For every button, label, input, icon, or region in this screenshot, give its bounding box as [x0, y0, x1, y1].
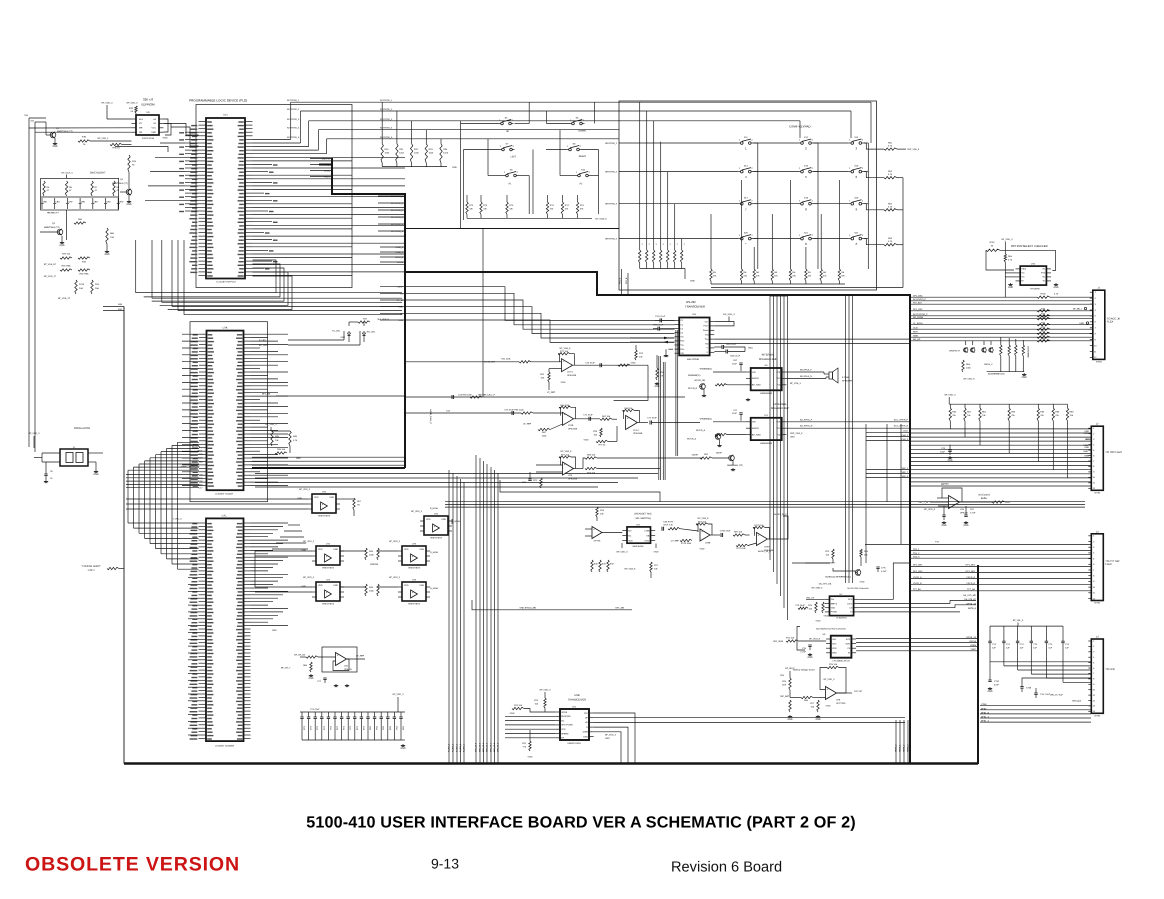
svg-text:R?? 10k: R?? 10k	[561, 454, 570, 457]
svg-text:OP?35: OP?35	[594, 540, 601, 543]
svg-text:UM_PIO: UM_PIO	[322, 158, 331, 161]
svg-text:LED: LED	[94, 201, 99, 204]
svg-text:R_BO_0: R_BO_0	[448, 743, 451, 752]
svg-text:GBIB_1: GBIB_1	[899, 744, 902, 752]
svg-text:BF_VDD_3: BF_VDD_3	[393, 693, 405, 696]
svg-text:VSCR_B: VSCR_B	[966, 582, 975, 585]
svg-text:R1i: R1i	[705, 334, 709, 337]
svg-text:CBF_VDb_8: CBF_VDb_8	[907, 148, 920, 151]
svg-text:GND: GND	[941, 524, 946, 527]
svg-text:LC4256V TQ100A: LC4256V TQ100A	[215, 493, 233, 496]
svg-text:OPA4348: OPA4348	[567, 374, 577, 377]
svg-text:GND: GND	[987, 690, 992, 693]
svg-text:OSCILLATOR: OSCILLATOR	[74, 427, 90, 430]
svg-text:BF_VDD_3: BF_VDD_3	[102, 102, 114, 105]
svg-text:BF_VDD_3: BF_VDD_3	[411, 510, 423, 513]
svg-text:GND: GND	[301, 549, 306, 552]
svg-text:GND: GND	[419, 584, 424, 587]
svg-text:BF_VDA_4: BF_VDA_4	[62, 172, 74, 175]
svg-text:LC4128V TQFP144: LC4128V TQFP144	[216, 281, 236, 284]
svg-text:NO_BS: NO_BS	[913, 338, 921, 341]
svg-text:GND: GND	[631, 362, 636, 365]
svg-text:GND: GND	[528, 756, 533, 759]
svg-text:3HbrVOB?A: 3HbrVOB?A	[322, 603, 334, 606]
svg-text:-: -	[326, 559, 327, 562]
svg-text:PGND: PGND	[831, 611, 838, 614]
svg-text:N PAJ: N PAJ	[1094, 714, 1100, 717]
svg-text:BIO1: BIO1	[198, 450, 204, 453]
svg-text:TRANSCEIVER: TRANSCEIVER	[568, 699, 587, 702]
svg-text:-: -	[758, 542, 759, 545]
svg-text:47uF 4.7k: 47uF 4.7k	[663, 524, 673, 527]
svg-text:RX_LED: RX_LED	[367, 331, 376, 334]
svg-text:0.7uF: 0.7uF	[801, 650, 807, 653]
svg-text:GND: GND	[126, 203, 131, 206]
svg-text:USB: USB	[574, 694, 580, 697]
svg-text:CL_BR1A: CL_BR1A	[913, 322, 923, 325]
svg-text:ACC/GPIO_P: ACC/GPIO_P	[913, 298, 927, 301]
svg-text:BF_VDD_3: BF_VDD_3	[605, 734, 617, 737]
svg-text:CCB: CCB	[913, 327, 918, 330]
svg-text:B6B: B6B	[198, 460, 203, 463]
svg-text:MIC_CL1: MIC_CL1	[479, 742, 482, 752]
svg-text:-: -	[564, 472, 565, 475]
svg-text:GND: GND	[419, 548, 424, 551]
svg-text:VDD: VDD	[426, 518, 431, 521]
svg-text:C?b 10uF: C?b 10uF	[795, 604, 805, 607]
svg-text:GMB: GMB	[913, 335, 918, 338]
svg-text:R11 100k: R11 100k	[501, 358, 511, 361]
svg-text:-: -	[701, 538, 702, 541]
svg-text:RGB: RGB	[913, 331, 918, 334]
svg-text:WWBBM(11): WWBBM(11)	[700, 368, 713, 371]
svg-text:V-: V-	[706, 351, 708, 354]
svg-text:B1B: B1B	[198, 453, 203, 456]
svg-text:BC_LED: BC_LED	[259, 344, 268, 347]
svg-text:7A? 7A?: 7A? 7A?	[854, 690, 863, 693]
svg-text:VDD: VDD	[832, 647, 837, 650]
svg-text:R4b 7MA: R4b 7MA	[80, 273, 89, 276]
svg-text:47uF: 47uF	[994, 683, 1000, 686]
svg-text:U?1B: U?1B	[568, 424, 574, 427]
svg-text:WVCB_RB: WVCB_RB	[694, 379, 705, 382]
svg-text:KEYROW_3: KEYROW_3	[605, 203, 618, 206]
svg-text:OPA434B: OPA434B	[633, 432, 643, 435]
svg-text:DP1_BA2: DP1_BA2	[913, 308, 923, 311]
svg-text:Down: Down	[703, 329, 709, 332]
svg-text:KEYROW_1: KEYROW_1	[605, 142, 618, 145]
svg-text:R7B: R7B	[82, 136, 87, 139]
svg-text:GND: GND	[297, 497, 302, 500]
svg-text:R1b 10k: R1b 10k	[277, 448, 286, 451]
svg-text:BPBL_4: BPBL_4	[981, 720, 990, 723]
svg-text:47uF: 47uF	[732, 362, 738, 365]
svg-text:304_VDB_8: 304_VDB_8	[377, 318, 389, 321]
svg-text:MIC_CL4: MIC_CL4	[490, 742, 493, 752]
svg-text:GND: GND	[452, 166, 457, 169]
svg-text:GND: GND	[333, 584, 338, 587]
svg-text:KEYROW_4: KEYROW_4	[287, 127, 300, 130]
svg-text:C?1 47uF: C?1 47uF	[583, 414, 593, 417]
svg-text:VPD: VPD	[561, 728, 566, 731]
svg-text:-: -	[412, 559, 413, 562]
svg-text:1 OF 2: 1 OF 2	[87, 569, 95, 572]
svg-text:GND: GND	[700, 548, 705, 551]
svg-text:Buffer: Buffer	[981, 497, 988, 500]
svg-text:U17-C: U17-C	[567, 371, 574, 374]
svg-text:RIGHT: RIGHT	[579, 155, 587, 158]
svg-text:BF_VDD_3: BF_VDD_3	[303, 540, 315, 543]
svg-text:GBIB_3: GBIB_3	[907, 744, 910, 752]
svg-text:GND: GND	[787, 718, 792, 721]
svg-text:BF_VDD_3: BF_VDD_3	[389, 576, 401, 579]
svg-text:BC/AHEMB: BC/AHEMB	[1027, 346, 1030, 358]
svg-text:INLSPKA_N: INLSPKA_N	[800, 375, 812, 378]
svg-text:WWBBM(11): WWBBM(11)	[700, 417, 713, 420]
svg-text:Pwr»: Pwr»	[704, 325, 710, 328]
svg-text:R71b: R71b	[79, 283, 85, 286]
svg-text:C13 R63 100k: C13 R63 100k	[458, 394, 473, 397]
svg-text:BF_VDD_1: BF_VDD_1	[98, 137, 110, 140]
svg-text:GND: GND	[807, 656, 812, 659]
svg-text:DP1_BK2: DP1_BK2	[913, 570, 923, 573]
svg-text:TX_LED: TX_LED	[332, 330, 341, 333]
svg-text:-: -	[593, 535, 594, 538]
svg-text:U?_REF: U?_REF	[671, 540, 680, 543]
svg-text:-: -	[412, 595, 413, 598]
svg-text:SPEED: SPEED	[561, 732, 569, 735]
svg-text:R2i: R2i	[705, 342, 709, 345]
svg-text:GND: GND	[1083, 432, 1088, 435]
svg-text:C?%: C?%	[881, 567, 886, 570]
svg-text:NC: NC	[1085, 438, 1089, 441]
svg-text:C?1 47uF: C?1 47uF	[310, 708, 320, 711]
svg-text:DTMF KEYPAD: DTMF KEYPAD	[789, 125, 811, 129]
svg-text:Battery Voltage Sense: Battery Voltage Sense	[793, 668, 815, 671]
svg-text:VSCR_B: VSCR_B	[913, 582, 922, 585]
svg-text:BPL_MB: BPL_MB	[616, 606, 625, 609]
svg-text:SPEAKER AMP: SPEAKER AMP	[759, 358, 778, 361]
svg-text:GND: GND	[104, 253, 109, 256]
svg-text:1bA: 1bA	[95, 287, 99, 290]
svg-text:MIC_CL0: MIC_CL0	[475, 742, 478, 752]
svg-text:GND: GND	[832, 652, 837, 655]
svg-text:GND gnd: GND gnd	[1072, 700, 1082, 703]
svg-text:R7b 10k: R7b 10k	[62, 253, 71, 256]
svg-text:VSCR_A: VSCR_A	[913, 576, 922, 579]
svg-text:AUDIO_IN_N: AUDIO_IN_N	[758, 550, 771, 553]
svg-text:BF_MU_I: BF_MU_I	[1073, 308, 1082, 311]
svg-text:WVCB_A: WVCB_A	[696, 429, 706, 432]
svg-text:R69 10k: R69 10k	[587, 454, 596, 457]
svg-text:BF_VDD_3: BF_VDD_3	[303, 576, 315, 579]
svg-text:C14 47uF R64 100k: C14 47uF R64 100k	[504, 409, 524, 412]
svg-text:R_BO_4: R_BO_4	[463, 743, 466, 752]
svg-text:9-13: 9-13	[431, 856, 459, 872]
svg-text:NC: NC	[628, 534, 632, 537]
svg-text:MMBT3904 (1T): MMBT3904 (1T)	[57, 130, 73, 133]
svg-text:0.7uF: 0.7uF	[970, 511, 976, 514]
svg-text:SH/DN: SH/DN	[752, 377, 759, 380]
svg-text:R_HIGH: R_HIGH	[430, 587, 439, 590]
svg-text:GN: GN	[680, 352, 684, 355]
svg-text:BF_VDA_8: BF_VDA_8	[560, 347, 572, 350]
svg-text:U21: U21	[223, 114, 228, 117]
svg-text:GND: GND	[333, 548, 338, 551]
svg-text:VDD: VDD	[318, 584, 323, 587]
svg-text:GND: GND	[654, 551, 659, 554]
svg-text:KEYROW_4: KEYROW_4	[605, 238, 618, 241]
svg-text:R?4 10k: R?4 10k	[587, 472, 596, 475]
svg-text:R?79 10k: R?79 10k	[754, 524, 764, 527]
svg-text:(HEADSET MIC: (HEADSET MIC	[634, 513, 651, 516]
svg-text:VDD: VDD	[314, 496, 319, 499]
svg-text:3HbrVOB?A: 3HbrVOB?A	[408, 567, 420, 570]
svg-text:U?_REF: U?_REF	[356, 655, 365, 658]
svg-text:LED: LED	[43, 201, 48, 204]
svg-text:-: -	[326, 595, 327, 598]
svg-text:BPBL_3: BPBL_3	[981, 716, 990, 719]
svg-text:GND: GND	[690, 280, 695, 283]
svg-text:MIC_CL2: MIC_CL2	[482, 742, 485, 752]
svg-text:-: -	[337, 662, 338, 665]
svg-text:BF_VDA_3: BF_VDA_3	[790, 382, 802, 385]
svg-text:H 4547B-A: H 4547B-A	[836, 617, 847, 620]
svg-text:GND: GND	[790, 436, 795, 439]
svg-text:MIC_CL5: MIC_CL5	[493, 742, 496, 752]
svg-text:GND: GND	[59, 244, 64, 247]
svg-text:IO: IO	[850, 611, 853, 614]
svg-text:V?BB: V?BB	[981, 703, 987, 706]
svg-text:DP1_BK2: DP1_BK2	[966, 570, 976, 573]
svg-text:GBIB_0: GBIB_0	[895, 744, 898, 752]
svg-text:BF_VDD_3: BF_VDD_3	[540, 689, 552, 692]
svg-text:LM4890MPA: LM4890MPA	[760, 442, 773, 445]
svg-text:R?75 10k: R?75 10k	[736, 547, 746, 550]
svg-text:LTC1594B_4F_M: LTC1594B_4F_M	[833, 659, 850, 662]
svg-text:R?? 10k: R?? 10k	[560, 350, 569, 353]
svg-text:GND: GND	[561, 381, 566, 384]
svg-text:VDD: VDD	[628, 539, 633, 542]
svg-text:EEPROM: EEPROM	[141, 103, 155, 107]
svg-text:C?0 0.1uF: C?0 0.1uF	[655, 315, 666, 318]
svg-text:GND BH4LA_MB: GND BH4LA_MB	[519, 606, 536, 609]
svg-text:BFW?11T?: BFW?11T?	[949, 350, 960, 353]
svg-text:U?8-B: U?8-B	[764, 546, 771, 549]
svg-text:NC: NC	[561, 719, 565, 722]
svg-text:-: -	[322, 507, 323, 510]
svg-text:MAL23T84B: MAL23T84B	[687, 358, 699, 361]
svg-text:KCB: KCB	[399, 306, 404, 309]
svg-text:KCB: KCB	[399, 319, 404, 322]
svg-text:C?66 47uF: C?66 47uF	[720, 530, 731, 533]
svg-text:PROGRAMMABLE LOGIC DEVICE (PLD: PROGRAMMABLE LOGIC DEVICE (PLD)	[189, 99, 247, 103]
svg-text:10uF: 10uF	[940, 450, 946, 453]
svg-text:OPTION SELECT 2 BUFFER: OPTION SELECT 2 BUFFER	[1011, 244, 1048, 248]
svg-text:GND: GND	[824, 615, 829, 618]
svg-text:R_BO_2: R_BO_2	[456, 743, 459, 752]
svg-text:I/O: I/O	[139, 122, 142, 125]
svg-text:U?_REF: U?_REF	[523, 423, 532, 426]
svg-text:R_HIGH: R_HIGH	[430, 551, 439, 554]
svg-text:BU/BA(11) BF/BEMBO(11): BU/BA(11) BF/BEMBO(11)	[825, 576, 851, 579]
svg-text:70A: 70A	[110, 236, 114, 239]
svg-text:R67 10k: R67 10k	[602, 415, 611, 418]
svg-text:BF_VR_?: BF_VR_?	[281, 667, 291, 670]
svg-text:VDD: VDD	[318, 548, 323, 551]
svg-text:PIA_7: PIA_7	[324, 176, 331, 179]
svg-text:DA_GP1_MK: DA_GP1_MK	[963, 594, 976, 597]
svg-text:GND: GND	[584, 439, 589, 442]
svg-text:R?2 10k: R?2 10k	[698, 521, 707, 524]
svg-text:BF_VDD_8: BF_VDD_8	[964, 378, 976, 381]
svg-text:ACC_SPKR_P: ACC_SPKR_P	[894, 418, 909, 421]
svg-text:C61 0.1uF: C61 0.1uF	[726, 343, 737, 346]
svg-text:Vol Ctrl D/A Converter: Vol Ctrl D/A Converter	[847, 587, 869, 590]
svg-text:CH1M: CH1M	[397, 261, 403, 264]
svg-text:BF_VDD_3: BF_VDD_3	[266, 423, 278, 426]
svg-text:B4B: B4B	[198, 457, 203, 460]
svg-text:UP: UP	[506, 130, 510, 133]
svg-text:N PAJ: N PAJ	[1094, 602, 1100, 605]
svg-text:DP1_BK1: DP1_BK1	[913, 564, 923, 567]
svg-text:3HbrVOB?A: 3HbrVOB?A	[408, 603, 420, 606]
svg-text:C?7 47uF: C?7 47uF	[647, 417, 657, 420]
svg-text:KEYROW_1: KEYROW_1	[391, 195, 404, 198]
svg-text:ALLSPKA_P: ALLSPKA_P	[800, 418, 813, 421]
svg-text:R?4 10k: R?4 10k	[514, 704, 523, 707]
svg-text:INTERNAL: INTERNAL	[762, 354, 775, 357]
svg-text:GND: GND	[1053, 286, 1058, 289]
svg-text:GND: GND	[583, 735, 588, 738]
svg-text:GND: GND	[826, 705, 831, 708]
svg-text:GP1_BA1: GP1_BA1	[913, 294, 923, 297]
svg-text:R4b 7MA: R4b 7MA	[62, 265, 71, 268]
svg-text:VIN: VIN	[752, 421, 756, 424]
svg-text:KEYROW_3: KEYROW_3	[287, 118, 300, 121]
svg-text:T OFF/ON SHEET: T OFF/ON SHEET	[82, 565, 102, 568]
svg-text:47uF: 47uF	[732, 412, 738, 415]
svg-text:5100-410 USER INTERFACE BOARD: 5100-410 USER INTERFACE BOARD VER A SCHE…	[306, 814, 855, 832]
svg-text:KEYROW_2: KEYROW_2	[605, 171, 618, 174]
svg-text:R7B: R7B	[129, 107, 134, 110]
svg-text:P10 A7B: P10 A7B	[192, 446, 201, 449]
svg-text:VDDB: VDDB	[561, 711, 568, 714]
svg-text:BF_VDD_3: BF_VDD_3	[617, 551, 629, 554]
svg-text:T1i: T1i	[680, 336, 683, 339]
svg-text:C1B: C1B	[198, 474, 203, 477]
svg-text:VIN: VIN	[752, 371, 756, 374]
svg-text:GBIB_2: GBIB_2	[903, 744, 906, 752]
svg-text:GND: GND	[963, 524, 968, 527]
svg-text:GND: GND	[52, 145, 57, 148]
svg-text:GND: GND	[1079, 322, 1084, 325]
svg-text:H?OAPW: H?OAPW	[1030, 288, 1040, 291]
svg-text:Bat Volt/Vol Ctrl A/D Converte: Bat Volt/Vol Ctrl A/D Converter	[816, 628, 846, 631]
svg-text:BF_BK(1): BF_BK(1)	[785, 667, 795, 670]
svg-text:10A: 10A	[79, 287, 83, 290]
svg-text:GND: GND	[1022, 376, 1027, 379]
svg-text:S0B: S0B	[118, 303, 123, 306]
svg-text:TO TOP FLEX: TO TOP FLEX	[1105, 451, 1122, 454]
svg-text:GND: GND	[329, 496, 334, 499]
svg-text:LED: LED	[81, 201, 86, 204]
svg-text:BF_VDA_8: BF_VDA_8	[561, 450, 573, 453]
svg-text:DO 1: DO 1	[847, 602, 853, 605]
svg-text:VSCR_A: VSCR_A	[966, 576, 975, 579]
svg-text:WE: WE	[139, 127, 143, 130]
svg-text:32K x 8: 32K x 8	[143, 98, 154, 102]
svg-text:BF_VDD_3: BF_VDD_3	[945, 394, 957, 397]
svg-text:TLT_BA: TLT_BA	[913, 588, 921, 591]
svg-text:GND: GND	[272, 629, 277, 632]
svg-text:REF B: REF B	[831, 602, 838, 605]
svg-text:LED_B 7.5uF: LED_B 7.5uF	[1050, 694, 1064, 697]
svg-text:U7C: U7C	[222, 515, 227, 518]
svg-text:-: -	[950, 505, 951, 508]
svg-text:KEYROW_2: KEYROW_2	[391, 202, 404, 205]
svg-text:TRANSCEIVER: TRANSCEIVER	[685, 305, 705, 309]
svg-text:ALLSPKA_N: ALLSPKA_N	[800, 425, 813, 428]
svg-text:KEYROW_5: KEYROW_5	[391, 223, 404, 226]
svg-text:HE HED IT?: HE HED IT?	[47, 212, 60, 215]
svg-text:LM4890MPA: LM4890MPA	[760, 392, 773, 395]
svg-text:AHMB: AHMB	[324, 170, 331, 173]
svg-text:GND: GND	[815, 718, 820, 721]
svg-text:VB2_7: VB2_7	[902, 471, 909, 474]
svg-text:U?1-C: U?1-C	[633, 429, 640, 432]
svg-text:BPBL_B: BPBL_B	[981, 711, 990, 714]
svg-text:0.1uF: 0.1uF	[881, 570, 887, 573]
svg-text:U?8B: U?8B	[705, 542, 711, 545]
svg-text:GND: GND	[400, 747, 405, 750]
svg-text:S0D: S0D	[118, 308, 123, 311]
svg-text:BF_VDD_2?: BF_VDD_2?	[44, 275, 57, 278]
svg-text:-: -	[564, 422, 565, 425]
svg-text:BF_VDD_8: BF_VDD_8	[809, 638, 821, 641]
svg-text:GND6_C: GND6_C	[984, 363, 993, 366]
svg-text:VDD: VDD	[831, 607, 836, 610]
svg-text:DA_GP1_BA: DA_GP1_BA	[819, 583, 832, 586]
svg-text:VDD: VDD	[404, 584, 409, 587]
svg-text:BF_VBL_3: BF_VBL_3	[1013, 619, 1024, 622]
svg-text:BA_VDD_3: BA_VDD_3	[723, 313, 735, 316]
svg-text:-CBOE: -CBOE	[691, 454, 698, 457]
svg-text:WVCB_A: WVCB_A	[687, 437, 697, 440]
svg-text:R_BO_3: R_BO_3	[459, 743, 462, 752]
svg-text:GND: GND	[645, 539, 650, 542]
svg-text:VB2_1: VB2_1	[902, 467, 909, 470]
svg-text:KEYROW_1: KEYROW_1	[287, 99, 300, 102]
svg-text:OPA4348: OPA4348	[568, 427, 578, 430]
svg-text:BHD: BHD	[1083, 450, 1088, 453]
svg-text:TO LCD: TO LCD	[1105, 668, 1115, 671]
svg-text:BUSPWD: BUSPWD	[561, 715, 571, 718]
svg-text:X25C128 8A: X25C128 8A	[142, 137, 155, 140]
svg-text:COM: COM	[644, 529, 649, 532]
svg-text:ABOF: ABOF	[716, 452, 723, 455]
svg-text:BATB_A: BATB_A	[968, 607, 977, 610]
svg-text:OPA2-B: OPA2-B	[960, 511, 968, 514]
svg-text:O1B: O1B	[198, 480, 203, 483]
svg-text:IOM8_J: IOM8_J	[396, 251, 404, 254]
svg-text:R7B 7A: R7B 7A	[112, 147, 120, 150]
svg-text:NO: NO	[628, 529, 632, 532]
svg-text:TLT_BA: TLT_BA	[967, 588, 975, 591]
svg-text:DP1_BK1: DP1_BK1	[966, 564, 976, 567]
svg-text:KEYROW_3: KEYROW_3	[391, 209, 404, 212]
svg-text:DWB: DWB	[583, 731, 589, 734]
